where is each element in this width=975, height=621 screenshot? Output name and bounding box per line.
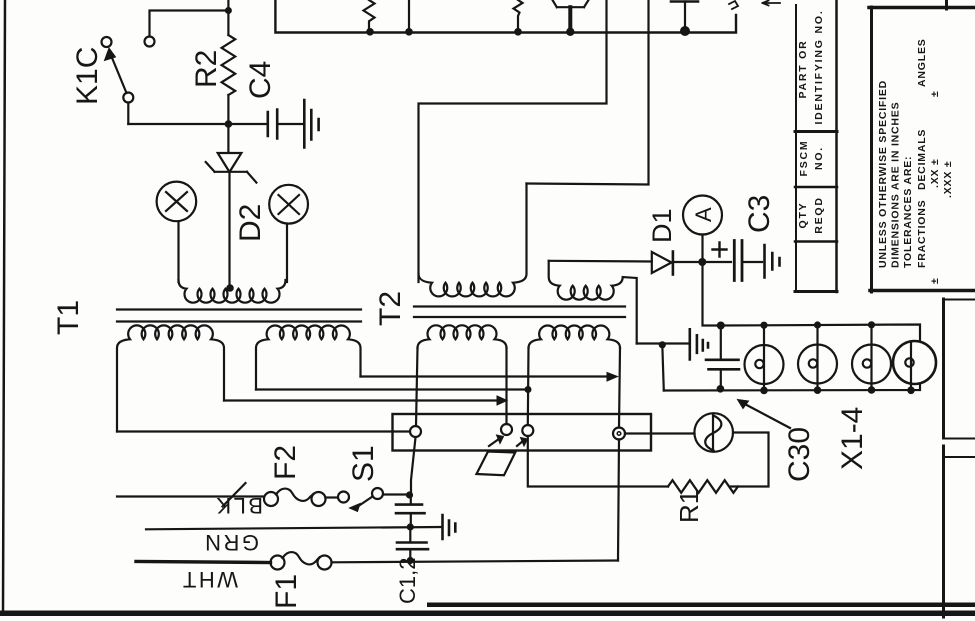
svg-text:F1: F1 <box>270 574 303 609</box>
polarity plus <box>713 243 727 257</box>
diode D1 <box>549 252 699 275</box>
arrow mark top right <box>763 1 781 6</box>
terminal 3 <box>522 425 533 436</box>
svg-text:C3: C3 <box>743 195 776 233</box>
svg-text:C30: C30 <box>783 427 816 482</box>
capacitor top cut <box>671 0 698 3</box>
ground chassis <box>690 329 708 359</box>
svg-text:UNLESS OTHERWISE SPECIFIED: UNLESS OTHERWISE SPECIFIED <box>877 80 889 268</box>
transformer T1 primary winding a <box>117 325 224 431</box>
diode top cut <box>553 0 589 7</box>
node T1 center tap <box>226 284 234 292</box>
transformer T1 primary winding b <box>256 325 361 389</box>
tolerance box frame <box>869 6 975 10</box>
wire terminal 4 to lamp X5 <box>625 432 695 434</box>
strike slash <box>223 483 246 507</box>
border bottom <box>0 611 975 617</box>
ground at C4 <box>304 100 318 148</box>
wire K1C branch horizontal <box>150 11 229 37</box>
svg-text:C4: C4 <box>244 61 277 99</box>
wire GRN line <box>146 527 441 529</box>
node top bus b <box>405 28 413 36</box>
node junction at K1C branch <box>225 7 232 14</box>
parts strip frame <box>795 5 797 292</box>
svg-text:X1-4: X1-4 <box>836 407 869 470</box>
svg-text:BLK: BLK <box>214 493 263 518</box>
wire K1C arm to node <box>128 123 228 125</box>
wire BLK line <box>117 495 264 497</box>
svg-text:IDENTIFYING NO.: IDENTIFYING NO. <box>813 9 825 124</box>
wire T2c left end to terminal 1 <box>416 348 418 426</box>
wire D2 to T1 center tap <box>228 172 230 287</box>
node junction R2/C4/D2 <box>225 120 233 128</box>
wire lamp bottom bus <box>664 384 920 391</box>
svg-text:NO.: NO. <box>813 146 825 170</box>
zigzag top right cut <box>729 1 738 9</box>
svg-text:T1: T1 <box>52 300 85 335</box>
capacitor C2 <box>409 527 411 541</box>
node ground tap <box>659 341 666 348</box>
terminal 1 <box>410 426 421 437</box>
capacitor C3 <box>705 261 731 263</box>
svg-text:R2: R2 <box>190 50 223 88</box>
lamp socket X3 <box>852 325 891 390</box>
switch S1 <box>338 488 383 512</box>
top bus <box>275 0 736 33</box>
svg-text:QTY: QTY <box>797 202 809 229</box>
node top bus d <box>566 28 574 36</box>
resistor R2 <box>222 35 236 95</box>
svg-text:A: A <box>691 207 716 222</box>
ground at C3 <box>765 245 780 278</box>
transformer T1 secondary winding <box>179 280 286 303</box>
node WHT junction <box>407 557 414 564</box>
svg-text:TOLERANCES ARE:: TOLERANCES ARE: <box>902 156 914 268</box>
wire node to C4 <box>228 123 266 125</box>
svg-text:K1C: K1C <box>71 47 104 105</box>
node GRN junction <box>407 523 414 530</box>
wire top bus to T2 primary a <box>419 0 607 282</box>
terminal 2 <box>501 424 512 435</box>
node top bus a <box>366 28 374 36</box>
node top bus e <box>680 26 690 36</box>
svg-text:REQD: REQD <box>813 196 825 234</box>
transformer T2 primary winding a <box>419 184 527 297</box>
svg-text:FRACTIONS: FRACTIONS <box>916 200 928 268</box>
junction arrow at terminal 2 line <box>497 396 507 405</box>
node top bus c <box>514 28 522 36</box>
capacitor C30 <box>720 329 722 358</box>
wire T1b left end to terminal 3 line <box>256 388 524 390</box>
wire R1 to lamp X5 loop <box>730 433 769 487</box>
svg-text:FSCM: FSCM <box>798 140 810 177</box>
svg-text:DIMENSIONS ARE IN INCHES: DIMENSIONS ARE IN INCHES <box>890 102 902 268</box>
svg-text:DECIMALS: DECIMALS <box>916 129 928 190</box>
resistor at top cut <box>364 0 375 32</box>
relay contact K1C <box>102 37 155 125</box>
fuse F2 <box>264 489 326 506</box>
wire F2 to S1 <box>326 496 338 498</box>
wire R2 to node <box>227 95 229 153</box>
svg-text:C1,2: C1,2 <box>395 558 420 604</box>
wire T2d left end through node to terminal 3 <box>527 348 530 425</box>
switch S1 ganged contacts <box>477 435 528 475</box>
svg-text:PART OR: PART OR <box>797 39 809 98</box>
svg-text:GRN: GRN <box>203 530 259 555</box>
lamp socket X1 <box>745 326 784 391</box>
svg-text:±: ± <box>929 90 941 97</box>
svg-text:±: ± <box>929 277 941 284</box>
terminal 4 <box>613 428 625 440</box>
node BLK junction <box>406 491 413 498</box>
wire T1a left end to terminal 1 <box>117 430 410 432</box>
ground at C1 C2 <box>443 515 456 539</box>
lamp socket X4 <box>893 341 936 390</box>
resistor R1 <box>668 480 738 493</box>
neon lamp X5 <box>694 413 733 452</box>
wire T1a right end to terminal 2 line <box>224 399 500 401</box>
svg-text:D1: D1 <box>647 208 677 243</box>
svg-text:D2: D2 <box>234 204 267 242</box>
svg-text:ANGLES: ANGLES <box>916 38 928 87</box>
svg-text:T2: T2 <box>374 291 407 326</box>
wire drop to lamp bottom bus <box>662 345 664 391</box>
wire terminal 3 to R1 <box>528 436 668 487</box>
wire lamp top bus <box>721 325 920 341</box>
transformer T2 secondary winding b <box>549 261 637 344</box>
transformer T1 core <box>117 310 361 322</box>
svg-text:.XX ±: .XX ± <box>929 158 941 188</box>
ammeter M1 <box>683 196 722 259</box>
wire D1 junction down to lamp bus <box>703 262 718 326</box>
resistor top cut small <box>514 0 523 32</box>
wire main vertical from top edge to R2 <box>227 0 229 35</box>
wire S1 to junction <box>383 493 406 495</box>
junction arrow at terminal 4 line <box>607 373 618 382</box>
terminal strip TB1 <box>393 414 652 451</box>
wire T2a right end to top edge <box>527 0 649 185</box>
node on terminal 3 line <box>525 386 532 393</box>
border left <box>3 0 5 612</box>
lamp DS2 <box>269 185 308 282</box>
lamp DS1 <box>157 182 197 282</box>
wire WHT line <box>136 562 271 563</box>
fuse F1 <box>271 552 332 569</box>
svg-text:.XXX ±: .XXX ± <box>942 161 954 198</box>
wire T2d right end to terminal 4 and WHT <box>618 348 620 561</box>
wire T2c right end to terminal 2 <box>505 348 507 424</box>
wire T1b right end to terminal 4 line <box>361 375 611 377</box>
capacitor C1 <box>410 495 412 503</box>
svg-text:S1: S1 <box>347 445 380 482</box>
svg-text:WHT: WHT <box>180 567 238 592</box>
transformer T2 winding d <box>529 326 620 348</box>
node lamp taps bottom <box>717 385 725 393</box>
capacitor C4 <box>268 110 277 139</box>
node C30 tap <box>717 322 725 330</box>
transformer T2 winding c <box>418 325 507 348</box>
transformer T2 core <box>414 307 625 318</box>
svg-text:R1: R1 <box>674 490 704 523</box>
wire junction to terminal 1 <box>411 438 416 496</box>
border right <box>942 299 945 617</box>
lamp socket X2 <box>798 325 837 390</box>
wire top stub <box>408 0 410 32</box>
leader arrow to C30 <box>741 402 790 428</box>
zener diode D2 <box>206 153 257 183</box>
svg-text:F2: F2 <box>269 445 302 480</box>
wire T2b to ground and bus drop <box>637 342 689 344</box>
node lamp taps top <box>760 322 767 329</box>
node D1 cathode junction <box>698 258 706 266</box>
